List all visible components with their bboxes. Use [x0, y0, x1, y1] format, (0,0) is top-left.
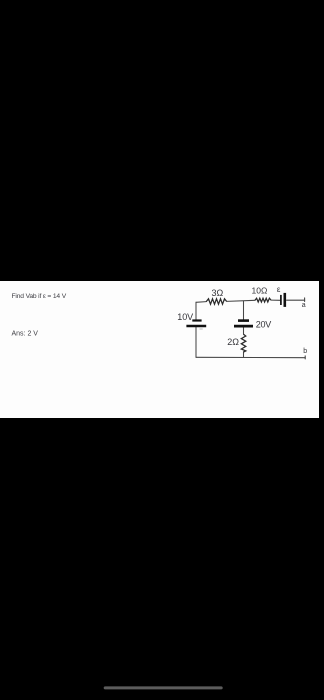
svg-text:3Ω: 3Ω	[212, 288, 224, 298]
svg-text:10V: 10V	[177, 312, 193, 322]
svg-text:10Ω: 10Ω	[252, 286, 268, 296]
svg-text:b: b	[303, 348, 307, 355]
svg-text:20V: 20V	[256, 319, 271, 329]
svg-text:Find Vab if ε = 14 V: Find Vab if ε = 14 V	[12, 293, 67, 300]
svg-text:Ans: 2 V: Ans: 2 V	[12, 330, 39, 337]
svg-text:a: a	[302, 302, 306, 309]
svg-text:2Ω: 2Ω	[227, 337, 239, 347]
svg-text:ε: ε	[277, 285, 281, 294]
